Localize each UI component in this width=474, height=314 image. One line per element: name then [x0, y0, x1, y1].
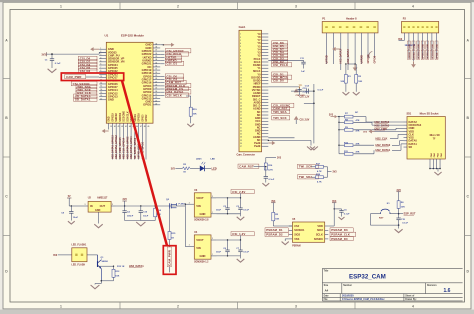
svg-text:47K: 47K	[356, 151, 360, 154]
resistor R9 47K	[338, 129, 339, 130]
svg-text:VDD: VDD	[317, 224, 323, 228]
svg-text:1: 1	[60, 304, 62, 308]
svg-text:32: 32	[155, 66, 157, 68]
LED D1	[200, 166, 205, 172]
svg-text:3: 3	[240, 40, 241, 42]
P2 vertical net labels	[407, 41, 410, 49]
svg-text:8: 8	[240, 56, 241, 58]
svg-text:37: 37	[240, 146, 242, 148]
svg-text:GND: GND	[436, 43, 438, 48]
svg-text:GPIO14: GPIO14	[431, 51, 434, 59]
op: U3 LDO 2.8V	[194, 193, 211, 217]
svg-text:HS2_DATA2_GPIO12: HS2_DATA2_GPIO12	[115, 135, 118, 159]
capacitor C15 0.1uF	[398, 214, 400, 218]
svg-text:5: 5	[240, 46, 241, 48]
svg-text:Micro SD Socket: Micro SD Socket	[420, 112, 439, 115]
PSRAM right net labels	[330, 228, 353, 232]
svg-text:SD_DATA1: SD_DATA1	[75, 97, 91, 101]
svg-text:29: 29	[240, 121, 242, 123]
svg-text:3V3: 3V3	[329, 114, 334, 116]
capacitor C1 0.1uF	[51, 54, 53, 59]
svg-text:Size: Size	[324, 285, 329, 287]
svg-text:1K: 1K	[183, 172, 186, 174]
svg-text:26: 26	[155, 84, 157, 86]
svg-text:5: 5	[100, 60, 101, 62]
svg-text:1.6: 1.6	[444, 288, 451, 294]
svg-text:Cam_Connector: Cam_Connector	[237, 154, 256, 157]
svg-text:PSRAM_D0: PSRAM_D0	[331, 237, 348, 241]
svg-text:HS2_DATA2: HS2_DATA2	[340, 49, 343, 64]
Cam1 right net labels	[272, 41, 288, 45]
ground below U2	[94, 224, 102, 228]
svg-text:GPIO13: GPIO13	[423, 51, 425, 59]
svg-text:HS2_DATA2: HS2_DATA2	[375, 120, 390, 124]
svg-text:35: 35	[240, 140, 242, 142]
svg-text:10uF: 10uF	[73, 217, 79, 219]
svg-text:U0RXD: U0RXD	[409, 51, 411, 59]
svg-text:CSI_MCLK: CSI_MCLK	[167, 93, 183, 97]
node CAM_PWR vertical label	[167, 247, 171, 267]
ground below C1	[48, 69, 57, 73]
svg-text:GPIO12: GPIO12	[418, 51, 420, 59]
op: U2 AMS1117 regulator	[88, 201, 111, 212]
svg-text:12: 12	[100, 83, 102, 85]
svg-text:GND: GND	[413, 43, 415, 48]
op: SD1 Micro SD socket	[407, 117, 445, 160]
svg-text:VIN: VIN	[196, 246, 201, 250]
svg-text:37: 37	[155, 50, 157, 52]
svg-text:SIO3: SIO3	[317, 228, 323, 232]
svg-text:8: 8	[100, 70, 101, 72]
ground below Q1	[100, 281, 102, 284]
svg-text:27: 27	[155, 81, 157, 83]
svg-text:15: 15	[240, 77, 242, 79]
resistor R19 10K	[190, 96, 192, 107]
ground below Cam1	[307, 147, 315, 150]
ground below C16	[262, 183, 269, 186]
svg-text:GPIO2: GPIO2	[146, 114, 148, 122]
svg-text:31: 31	[240, 127, 242, 129]
svg-text:SHD/D2: SHD/D2	[116, 112, 118, 121]
svg-text:TWI_SDA: TWI_SDA	[299, 175, 313, 179]
svg-text:TWI_SCK: TWI_SCK	[299, 165, 313, 169]
svg-text:GND: GND	[432, 43, 434, 48]
svg-text:13: 13	[100, 86, 102, 88]
power arrow at U1 pin1 GND	[93, 48, 99, 50]
P2 pin wires	[403, 33, 405, 41]
svg-text:26: 26	[240, 112, 242, 114]
svg-text:C:\Users\..\ESP32_CAM_V1.6.Sch: C:\Users\..\ESP32_CAM_V1.6.SchDoc	[342, 298, 385, 301]
svg-text:36: 36	[240, 143, 242, 145]
node TWI_SCK pullup	[298, 164, 319, 168]
svg-text:10: 10	[100, 76, 102, 78]
svg-text:ESP32_CAM: ESP32_CAM	[349, 273, 386, 280]
red highlight box on U1 CAM_PWR pin	[61, 73, 123, 81]
power CSI_1.2V arrow near Cam1 DVDD	[294, 89, 299, 93]
svg-text:39: 39	[155, 43, 157, 45]
op: P2 Header 8	[402, 22, 439, 33]
ground below C4/C10	[136, 222, 145, 226]
svg-text:23: 23	[155, 94, 157, 96]
svg-text:1K: 1K	[171, 238, 174, 240]
svg-text:0.1uF: 0.1uF	[269, 179, 275, 181]
svg-text:33: 33	[155, 62, 157, 64]
capacitor C4 100nF	[124, 206, 126, 211]
svg-text:4.7K: 4.7K	[317, 170, 322, 173]
svg-text:CSI_D1: CSI_D1	[167, 62, 178, 66]
svg-text:GND: GND	[109, 116, 111, 121]
svg-text:18: 18	[240, 87, 242, 89]
svg-text:11: 11	[240, 65, 242, 67]
svg-text:4: 4	[412, 304, 414, 308]
ground below C8	[68, 221, 75, 224]
svg-text:VOUT: VOUT	[196, 196, 204, 200]
svg-text:LED_FLASH1: LED_FLASH1	[72, 244, 88, 247]
svg-text:2: 2	[177, 5, 179, 9]
svg-text:0.1uF: 0.1uF	[243, 252, 249, 254]
svg-text:31: 31	[155, 69, 157, 71]
svg-text:33: 33	[240, 134, 242, 136]
svg-text:3: 3	[189, 245, 190, 247]
svg-text:1: 1	[212, 254, 213, 256]
svg-text:Drawn By:: Drawn By:	[405, 299, 417, 301]
capacitor C6 10uF	[227, 240, 229, 250]
P1 pin wires	[326, 33, 328, 64]
svg-text:GPIO16: GPIO16	[367, 54, 370, 64]
svg-text:Sheet of: Sheet of	[405, 295, 414, 298]
svg-text:3: 3	[85, 204, 86, 206]
svg-text:2: 2	[112, 204, 113, 206]
svg-text:HS2_DATA3: HS2_DATA3	[375, 124, 390, 128]
svg-text:0.1uF: 0.1uF	[55, 63, 61, 65]
svg-text:SIO2: SIO2	[294, 233, 300, 237]
svg-text:36: 36	[155, 53, 157, 55]
svg-text:GND: GND	[423, 43, 425, 48]
capacitor C12	[268, 86, 299, 88]
svg-text:22: 22	[155, 97, 157, 99]
svg-text:SDI/D1: SDI/D1	[135, 113, 137, 121]
svg-text:PAD: PAD	[440, 152, 443, 157]
svg-text:4.7K: 4.7K	[317, 181, 322, 184]
capacitor C11	[268, 59, 303, 61]
svg-text:0.1uF: 0.1uF	[318, 90, 324, 92]
svg-text:10uF: 10uF	[143, 216, 149, 218]
svg-text:29: 29	[155, 75, 157, 77]
wire 3V3 to U3/U4 VIN	[184, 204, 186, 246]
svg-text:VSS: VSS	[294, 237, 299, 241]
op: U4 LDO 1.2V	[194, 235, 211, 259]
svg-text:22: 22	[240, 99, 242, 101]
svg-text:SCLK: SCLK	[316, 233, 323, 237]
U1 bottom pin wires and net labels	[108, 123, 110, 129]
power 3V3 for TWI pullups	[328, 171, 332, 173]
P1 5V power arrow	[335, 48, 341, 50]
svg-text:2.2uF: 2.2uF	[303, 92, 309, 94]
svg-text:Header 8: Header 8	[346, 18, 357, 21]
svg-text:HS2_DATA3: HS2_DATA3	[347, 49, 350, 64]
svg-text:PSRAM_D3: PSRAM_D3	[331, 228, 348, 232]
svg-text:HS2_DATA1: HS2_DATA1	[376, 148, 391, 152]
svg-text:KEY: KEY	[379, 217, 384, 219]
svg-text:20: 20	[240, 93, 242, 95]
resistor R7 NC	[338, 116, 339, 117]
node CAM_PWR at U1 (red-boxed row)	[86, 76, 99, 78]
ground below SD1	[434, 172, 441, 175]
node TWI_SDA pullup	[298, 175, 319, 179]
svg-text:21: 21	[155, 100, 157, 102]
red annotation line	[122, 81, 167, 246]
svg-text:CAM_PWR: CAM_PWR	[168, 249, 172, 266]
svg-text:GND: GND	[95, 209, 101, 212]
svg-text:17: 17	[240, 84, 242, 86]
svg-text:ESP_RST: ESP_RST	[404, 212, 416, 216]
resistor R11 47K	[339, 153, 345, 155]
svg-text:SO/SIO1: SO/SIO1	[294, 228, 305, 232]
capacitor C3 0.1uF	[240, 198, 242, 208]
svg-text:ESP-32S Module: ESP-32S Module	[121, 34, 144, 38]
svg-text:HS2_CLK: HS2_CLK	[376, 136, 388, 140]
svg-text:2: 2	[240, 37, 241, 39]
U1 right net labels	[160, 50, 164, 52]
svg-text:HS2_CLK_GPIO14: HS2_CLK_GPIO14	[123, 137, 126, 159]
svg-text:LED: LED	[212, 166, 217, 170]
capacitor C14 0.1uF near SD	[313, 84, 315, 143]
svg-text:10K: 10K	[115, 275, 119, 277]
svg-text:CSI_2.8V: CSI_2.8V	[300, 120, 310, 122]
svg-text:10K: 10K	[193, 114, 197, 116]
resistor R2 10K	[355, 64, 357, 75]
svg-text:100nF: 100nF	[127, 216, 134, 218]
svg-text:PSRAM: PSRAM	[292, 244, 300, 247]
Q2 gate wire	[169, 209, 171, 232]
Q1 base wire to R13	[98, 265, 114, 267]
svg-text:LED: LED	[211, 159, 216, 161]
svg-text:PSRAM_D2: PSRAM_D2	[266, 233, 283, 237]
K1 loop wire	[369, 214, 371, 225]
svg-text:GND: GND	[200, 212, 206, 216]
resistor R6 10K	[397, 201, 400, 209]
svg-text:1: 1	[240, 34, 241, 36]
svg-text:10K: 10K	[340, 81, 344, 83]
svg-text:PAD: PAD	[437, 152, 440, 157]
svg-text:IN: IN	[90, 204, 93, 208]
ground below 3V3 rail	[310, 147, 318, 150]
svg-text:23: 23	[240, 102, 242, 104]
svg-text:1: 1	[100, 48, 101, 50]
svg-text:21: 21	[240, 96, 242, 98]
svg-text:19: 19	[240, 90, 242, 92]
svg-text:GPIO0: GPIO0	[374, 55, 377, 63]
svg-text:U0RXD: U0RXD	[360, 55, 363, 64]
svg-text:GND: GND	[200, 254, 206, 258]
resistor R15 1K	[168, 232, 171, 240]
svg-text:3: 3	[100, 54, 101, 56]
svg-text:GPIO19: GPIO19	[112, 113, 114, 122]
svg-text:U1: U1	[105, 34, 109, 38]
svg-text:HS2_DATA0_GPIO2: HS2_DATA0_GPIO2	[126, 136, 129, 159]
svg-text:SD_DATA1_GPIO0: SD_DATA1_GPIO0	[134, 137, 137, 159]
svg-text:2: 2	[212, 196, 213, 198]
svg-text:Number: Number	[343, 285, 352, 287]
svg-text:3V3: 3V3	[277, 158, 282, 160]
svg-text:AMS1117: AMS1117	[97, 197, 108, 200]
svg-text:Cam1: Cam1	[239, 26, 246, 29]
svg-text:2: 2	[212, 238, 213, 240]
svg-text:10uF: 10uF	[216, 210, 222, 212]
capacitor C13 0.1uF	[334, 208, 341, 210]
svg-text:SCK/CLK: SCK/CLK	[127, 111, 129, 122]
svg-text:PAD: PAD	[430, 152, 433, 157]
svg-text:32: 32	[240, 130, 242, 132]
svg-text:10K: 10K	[275, 218, 279, 220]
ground below C13	[339, 217, 345, 220]
svg-text:3: 3	[189, 202, 190, 204]
svg-text:HS2_DATA1_GPIO4: HS2_DATA1_GPIO4	[130, 136, 133, 159]
svg-text:4.7K: 4.7K	[268, 169, 273, 172]
svg-text:10K: 10K	[358, 81, 362, 83]
svg-text:3: 3	[295, 304, 297, 308]
svg-text:25: 25	[240, 109, 242, 111]
svg-text:CSI_2.8V: CSI_2.8V	[232, 190, 245, 194]
svg-text:Micro SD: Micro SD	[430, 135, 440, 137]
svg-text:CSI_D0: CSI_D0	[273, 79, 284, 83]
op: U1 ESP-32S module	[106, 42, 153, 123]
svg-text:U0TXD: U0TXD	[413, 52, 415, 59]
svg-text:SI/SIO0: SI/SIO0	[314, 237, 324, 241]
svg-text:S8050: S8050	[102, 261, 109, 263]
svg-text:28: 28	[240, 118, 242, 120]
title block	[322, 267, 462, 269]
svg-text:GPIO1: GPIO1	[143, 103, 152, 107]
svg-text:GND: GND	[427, 43, 429, 48]
svg-text:2: 2	[177, 304, 179, 308]
capacitor C7 0.1uF	[240, 240, 242, 250]
ground below C2/C3	[240, 214, 242, 217]
ground below C6/C7	[240, 256, 242, 259]
svg-text:16: 16	[100, 95, 102, 97]
svg-text:GND: GND	[108, 98, 114, 102]
svg-text:1uF: 1uF	[301, 71, 306, 73]
node LED	[205, 167, 211, 169]
svg-text:15: 15	[100, 92, 102, 94]
svg-text:3V3: 3V3	[398, 39, 403, 41]
svg-text:HS2_CMD_GPIO15: HS2_CMD_GPIO15	[119, 137, 122, 159]
ground below K1	[398, 225, 400, 228]
resistor R10 47K	[338, 145, 339, 146]
svg-text:SGM2036-2.8: SGM2036-2.8	[194, 220, 209, 222]
svg-text:12: 12	[240, 68, 242, 70]
op: P1 Header 8	[322, 22, 378, 33]
svg-text:R13 1K: R13 1K	[117, 266, 125, 268]
svg-text:10uF: 10uF	[216, 252, 222, 254]
svg-text:U0TXD: U0TXD	[325, 55, 328, 63]
svg-text:25: 25	[155, 88, 157, 90]
Cam1 bottom ground wire	[268, 139, 311, 141]
ground below R19	[187, 124, 194, 127]
svg-text:1: 1	[60, 5, 62, 9]
svg-text:VIN: VIN	[196, 204, 201, 208]
svg-text:A4: A4	[325, 289, 329, 293]
junction + power arrow U1 right pin1	[163, 44, 165, 46]
svg-text:6: 6	[240, 49, 241, 51]
svg-text:3V3: 3V3	[333, 172, 338, 174]
svg-text:CAM_PWR: CAM_PWR	[66, 75, 81, 79]
capacitor C16 0.1uF	[265, 167, 267, 177]
svg-text:4: 4	[412, 5, 414, 9]
resistor R1 10K	[345, 64, 347, 75]
svg-text:SD1: SD1	[407, 112, 412, 115]
svg-text:SCS/CMD: SCS/CMD	[124, 111, 126, 122]
op: U5 PSRAM	[292, 222, 324, 242]
svg-text:30: 30	[240, 124, 242, 126]
svg-text:OUT: OUT	[100, 204, 106, 208]
svg-text:LED_FLASH: LED_FLASH	[72, 264, 86, 267]
op: LED1 flash module	[72, 248, 87, 262]
svg-text:0.1uF: 0.1uF	[243, 210, 249, 212]
svg-text:47K: 47K	[356, 142, 360, 145]
svg-text:30: 30	[155, 72, 157, 74]
node ESP_RST	[399, 213, 403, 215]
U1 bottom GND power arrow	[105, 130, 109, 132]
svg-text:10K: 10K	[401, 206, 405, 208]
power CSI_2.8V arrow at Cam1 AVDD	[268, 137, 294, 139]
capacitor C10 10uF	[140, 206, 142, 211]
svg-text:17: 17	[100, 98, 102, 100]
svg-text:HS2_DATA1: HS2_DATA1	[129, 264, 144, 268]
node CAM_RST	[238, 164, 259, 168]
svg-text:PSRAM_D1: PSRAM_D1	[266, 228, 283, 232]
capacitor C8 10uF	[70, 206, 72, 212]
svg-text:28: 28	[155, 78, 157, 80]
wires from HS2 labels to SD1	[390, 138, 398, 140]
svg-text:LED1: LED1	[196, 159, 202, 161]
SD1 shield pads to ground	[429, 159, 431, 169]
svg-text:CAM_RST: CAM_RST	[239, 164, 254, 168]
svg-text:2019/5/30: 2019/5/30	[342, 294, 354, 298]
svg-text:38: 38	[155, 47, 157, 49]
svg-text:HS2_DATA0: HS2_DATA0	[376, 143, 391, 147]
svg-text:PadE: PadE	[254, 144, 261, 148]
ground below R2	[353, 92, 360, 95]
svg-text:CSI_2.8V: CSI_2.8V	[296, 95, 306, 97]
node CSI_2.8V	[216, 197, 241, 199]
svg-text:SWP/D3: SWP/D3	[120, 112, 122, 122]
svg-text:GPIO4: GPIO4	[435, 52, 438, 59]
svg-text:Title: Title	[324, 270, 329, 273]
resistor R14 10K	[154, 206, 156, 208]
ground below R1	[343, 92, 350, 95]
svg-text:0.1uF: 0.1uF	[344, 213, 350, 215]
svg-text:GPIO15: GPIO15	[427, 51, 429, 59]
svg-text:CS#: CS#	[294, 224, 300, 228]
svg-text:GND: GND	[418, 43, 420, 48]
svg-text:3V3: 3V3	[53, 255, 58, 257]
svg-text:7: 7	[240, 52, 241, 54]
capacitor C2 10uF	[227, 198, 229, 208]
svg-text:20: 20	[155, 103, 157, 105]
svg-text:39: 39	[110, 126, 112, 128]
op: Cam1 camera connector	[239, 30, 262, 152]
svg-text:35: 35	[155, 56, 157, 58]
svg-text:VOUT: VOUT	[196, 238, 204, 242]
svg-text:PSRAM_CLK: PSRAM_CLK	[331, 233, 350, 237]
power 3V3 above R16	[265, 158, 267, 160]
svg-text:TWI_SCK: TWI_SCK	[273, 116, 287, 120]
svg-text:HS2_CMD: HS2_CMD	[375, 127, 388, 131]
P1 ground	[354, 63, 356, 65]
red highlight box on CAM_PWR net label	[163, 246, 176, 275]
svg-text:Revision: Revision	[427, 285, 437, 287]
